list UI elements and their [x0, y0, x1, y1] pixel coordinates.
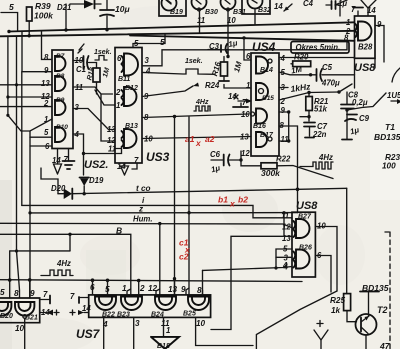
svg-text:7: 7: [242, 98, 247, 107]
wire out2 to R21 top: [279, 92, 339, 100]
svg-text:a1: a1: [185, 134, 195, 144]
B21 output 10: [24, 318, 26, 349]
svg-text:3: 3: [75, 103, 80, 112]
svg-text:5: 5: [44, 128, 49, 137]
svg-text:4: 4: [145, 67, 151, 76]
svg-text:10: 10: [15, 324, 25, 333]
capacitor C9: [346, 110, 348, 139]
svg-text:300k: 300k: [261, 168, 281, 178]
gate B11: [124, 54, 138, 76]
resistor R16: [221, 62, 228, 76]
US8 lower box: [292, 212, 315, 277]
svg-text:R24: R24: [205, 81, 220, 90]
svg-text:4Hz: 4Hz: [56, 259, 71, 268]
svg-text:BD135: BD135: [374, 132, 400, 142]
gate B23: [121, 297, 142, 311]
svg-text:11: 11: [281, 212, 289, 221]
svg-text:9: 9: [281, 106, 286, 115]
svg-text:T2: T2: [377, 305, 388, 315]
pin stubs into US7 left box: [29, 280, 31, 298]
wire top-left corner box: [1, 13, 18, 32]
transistor circle B19 in box: [159, 0, 186, 16]
svg-text:b1: b1: [218, 195, 228, 205]
wire output 9 of B28: [375, 26, 384, 63]
vertical c-line x189: [188, 117, 190, 296]
svg-text:B14: B14: [260, 67, 273, 74]
svg-text:6: 6: [117, 54, 122, 63]
T2 emitter: [365, 335, 367, 349]
svg-text:10: 10: [196, 319, 206, 328]
svg-text:B26: B26: [299, 245, 312, 252]
gate B15: [256, 83, 268, 100]
gate B21: [15, 302, 34, 316]
gate B13: [124, 129, 137, 148]
svg-text:470μ: 470μ: [321, 79, 340, 88]
pin stubs above US7R: [92, 280, 94, 295]
vertical c-line x174: [174, 117, 176, 296]
svg-text:4Hz: 4Hz: [195, 99, 209, 106]
svg-text:8: 8: [44, 53, 49, 62]
svg-text:C9: C9: [359, 114, 370, 123]
svg-text:4: 4: [280, 54, 286, 63]
wire pin11 from B30: [199, 11, 201, 32]
vertical x30 feed: [29, 131, 31, 298]
svg-text:B25: B25: [183, 311, 196, 318]
svg-text:10μ: 10μ: [115, 4, 130, 14]
wire arc top right: [392, 68, 400, 82]
svg-text:3: 3: [145, 56, 150, 65]
wire US3 out9 to R24 arrow: [142, 86, 193, 97]
svg-text:a2: a2: [205, 134, 215, 144]
svg-text:C4: C4: [303, 0, 314, 8]
svg-text:c2: c2: [179, 252, 189, 262]
svg-text:B30: B30: [205, 9, 218, 16]
gate B17: [256, 132, 267, 147]
svg-text:1U5: 1U5: [387, 91, 400, 100]
transistor T2: [356, 314, 377, 335]
svg-text:B16: B16: [253, 123, 266, 130]
svg-text:13: 13: [168, 285, 178, 294]
svg-text:B19: B19: [170, 9, 183, 16]
svg-text:B11: B11: [118, 76, 130, 83]
svg-text:D21: D21: [57, 3, 71, 12]
svg-text:11: 11: [281, 135, 289, 144]
svg-text:47: 47: [379, 341, 391, 349]
resistor R18: [89, 63, 97, 69]
resistor R25: [344, 294, 351, 311]
gate B8: [55, 76, 66, 91]
long bus line y280: [0, 280, 302, 282]
svg-text:B18: B18: [157, 343, 170, 349]
svg-text:5: 5: [160, 37, 165, 47]
svg-text:B24: B24: [151, 312, 164, 319]
svg-text:3: 3: [135, 319, 140, 328]
wire B26 out6: [315, 256, 331, 293]
gate B12: [124, 87, 137, 106]
svg-text:US4: US4: [252, 40, 276, 54]
capacitor C1: [73, 60, 84, 62]
wire tco corner down to R25: [346, 188, 348, 293]
svg-text:10: 10: [227, 16, 236, 25]
gate B7: [55, 56, 66, 71]
US7R pin14 arrow: [70, 310, 75, 315]
svg-text:14: 14: [274, 2, 283, 11]
svg-text:B15: B15: [262, 95, 274, 102]
US8 lower leads from B28 box: [354, 58, 356, 88]
svg-text:7: 7: [351, 5, 356, 14]
wire R16 bottom to US4 pin1: [224, 85, 251, 89]
junction dots on rails: [7, 30, 10, 33]
svg-text:10: 10: [241, 110, 250, 119]
svg-text:13: 13: [107, 125, 116, 134]
wire pin1 stub: [95, 90, 115, 105]
svg-text:14: 14: [82, 304, 91, 313]
svg-text:100: 100: [382, 162, 396, 171]
svg-text:1sek.: 1sek.: [185, 58, 203, 65]
dashed line right: [385, 231, 390, 233]
svg-text:5: 5: [9, 2, 14, 12]
svg-text:R39: R39: [35, 1, 51, 11]
svg-text:B13: B13: [125, 123, 138, 130]
gate B25: [188, 297, 209, 311]
1kHz arrow from out3: [279, 87, 288, 89]
wire pin10 from B31 down to C3 junction: [227, 11, 229, 57]
svg-text:4: 4: [282, 261, 288, 270]
svg-text:R20: R20: [294, 53, 309, 62]
resistor R39: [27, 7, 33, 21]
slash marks: [78, 44, 84, 53]
svg-text:C6: C6: [210, 150, 221, 159]
gate B9: [55, 100, 66, 115]
gate B26: [296, 250, 310, 269]
svg-text:B21: B21: [25, 315, 38, 322]
svg-text:9: 9: [30, 289, 35, 298]
svg-text:12: 12: [148, 284, 158, 293]
svg-text:11: 11: [197, 16, 205, 25]
svg-text:1: 1: [116, 101, 120, 110]
svg-text:4: 4: [102, 320, 108, 329]
wire B16 pin8 down to tco and z: [279, 126, 298, 213]
svg-text:9: 9: [181, 285, 186, 294]
svg-text:8: 8: [14, 289, 19, 298]
svg-text:7: 7: [70, 292, 75, 301]
power rail 1: [9, 22, 355, 31]
svg-text:US7: US7: [76, 327, 101, 341]
svg-text:51k: 51k: [314, 105, 328, 114]
svg-text:2: 2: [115, 88, 121, 97]
power rail 3: [130, 36, 355, 41]
svg-text:2: 2: [139, 284, 145, 293]
gate B20: [0, 302, 11, 316]
svg-text:C1: C1: [76, 65, 86, 74]
capacitor C5: [312, 74, 317, 76]
svg-text:B27: B27: [298, 214, 312, 221]
svg-text:12: 12: [282, 223, 291, 232]
svg-text:b2: b2: [238, 195, 248, 205]
svg-text:B7: B7: [56, 53, 65, 60]
US4 chip box: [251, 53, 279, 156]
gate B28: [358, 22, 372, 41]
wire rail3 to US4 pin6: [244, 38, 251, 60]
capacitor 10u electrolytic: [100, 9, 114, 11]
svg-text:R25: R25: [330, 296, 345, 305]
svg-text:B32: B32: [258, 7, 271, 14]
wire C6 to pin12: [230, 151, 242, 160]
svg-text:US8: US8: [296, 200, 318, 212]
svg-text:7: 7: [43, 290, 48, 299]
US8 box (B28): [355, 16, 376, 58]
svg-text:B17: B17: [260, 132, 274, 139]
wire B16 pin9 to B17 out11: [279, 112, 289, 141]
svg-text:13: 13: [282, 234, 291, 243]
gate B14: [256, 57, 268, 74]
transistor circle B31: [221, 0, 236, 10]
US3 pin5 top wire: [133, 35, 165, 48]
wire US3 out3 up and right: [142, 42, 347, 66]
svg-text:0,2μ: 0,2μ: [352, 98, 368, 107]
svg-text:9: 9: [44, 66, 49, 75]
US2 input wires from left: [42, 31, 53, 59]
svg-text:B9: B9: [56, 97, 65, 104]
US3 chip box: [115, 48, 142, 164]
big diagonal: [256, 291, 337, 349]
US7 right box: [89, 295, 211, 318]
US7 left box: [0, 298, 40, 323]
wire D21 drop: [65, 4, 67, 31]
resistor R22: [241, 160, 261, 166]
svg-text:B20: B20: [0, 313, 13, 320]
resistor R20: [293, 61, 311, 67]
svg-text:1: 1: [346, 18, 350, 27]
svg-text:B28: B28: [358, 43, 373, 52]
svg-text:US2.: US2.: [84, 159, 108, 171]
wire B27 out10: [315, 227, 337, 292]
gate B27: [296, 219, 310, 238]
svg-text:C5: C5: [322, 63, 333, 72]
gate B24: [155, 297, 176, 311]
svg-text:R22: R22: [276, 155, 291, 164]
svg-text:6: 6: [90, 283, 95, 292]
wire pin4 line: [203, 267, 293, 271]
wire top right diagonal: [335, 0, 347, 5]
svg-text:D19: D19: [89, 176, 104, 185]
wire US3 out4 with 1sek pulse: [142, 69, 215, 74]
resistor R21: [306, 97, 313, 111]
svg-text:B8: B8: [56, 73, 65, 80]
left bus vertical A: [17, 36, 20, 298]
svg-text:B12: B12: [125, 85, 138, 92]
wire US3 out8 to B16 input: [142, 114, 248, 118]
transistor circle B30: [192, 0, 207, 10]
svg-text:12: 12: [241, 149, 250, 158]
svg-text:B31: B31: [233, 9, 246, 16]
wire box corner to pin13 feed: [211, 236, 283, 329]
svg-text:7: 7: [64, 155, 69, 164]
svg-text:1k: 1k: [331, 306, 341, 315]
svg-text:22n: 22n: [312, 130, 327, 139]
power rail 2: [0, 31, 355, 37]
wire z to pin13: [284, 213, 292, 237]
wire from B32: [254, 9, 256, 25]
svg-text:5: 5: [105, 285, 110, 294]
wire US3 out10 to US4 pin13 (a-line): [142, 137, 251, 139]
gate B16: [256, 109, 267, 124]
svg-text:US3: US3: [146, 150, 170, 164]
transistor circle B32 in box: [242, 0, 270, 14]
gate B10: [55, 127, 66, 142]
svg-text:Okres 5min.: Okres 5min.: [296, 43, 341, 52]
wire US4 pin5 to C5 line: [279, 72, 311, 75]
svg-text:100k: 100k: [34, 11, 54, 21]
plus arrow bottom: [317, 321, 323, 327]
svg-text:5: 5: [0, 288, 5, 297]
svg-text:1: 1: [166, 326, 170, 335]
svg-text:8: 8: [197, 286, 202, 295]
left bus vertical B: [7, 36, 9, 115]
svg-text:9: 9: [377, 20, 382, 29]
capacitor C7: [304, 122, 315, 124]
wire C3 to junction: [227, 50, 228, 57]
wire diagonal to 1US: [347, 93, 386, 110]
svg-text:B10: B10: [56, 124, 68, 131]
left feed wires: [10, 250, 70, 252]
svg-text:11: 11: [108, 145, 116, 154]
svg-text:4Hz: 4Hz: [318, 153, 333, 162]
inverter triangle B18: [151, 337, 179, 349]
svg-text:B23: B23: [117, 312, 130, 319]
svg-text:13: 13: [41, 79, 50, 88]
okres box: [291, 42, 349, 54]
gate B22: [95, 297, 116, 311]
svg-text:1: 1: [122, 284, 127, 293]
svg-text:US8: US8: [354, 62, 376, 74]
wire US4 out4 to US8: [279, 57, 355, 59]
T2 collector: [360, 291, 379, 293]
svg-text:13: 13: [240, 133, 249, 142]
wire pins 5 3 feed: [276, 249, 292, 268]
US2 chip box: [52, 50, 73, 149]
svg-text:T1: T1: [385, 122, 395, 132]
svg-text:Hum.: Hum.: [133, 215, 153, 224]
D20 D19 box wires: [41, 168, 58, 194]
